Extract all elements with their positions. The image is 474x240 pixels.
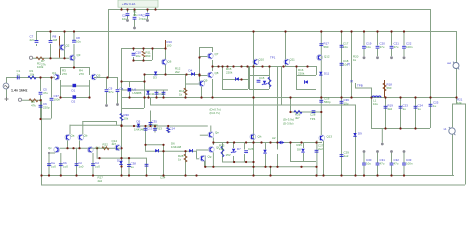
svg-text:Qc: Qc <box>48 146 52 150</box>
svg-text:C13: C13 <box>147 127 153 131</box>
svg-text:2k2: 2k2 <box>175 70 180 74</box>
svg-text:270: 270 <box>79 72 84 76</box>
svg-text:D7: D7 <box>237 147 241 151</box>
svg-text:10u: 10u <box>373 102 378 106</box>
svg-text:C12: C12 <box>158 92 164 96</box>
svg-text:TP1: TP1 <box>270 56 276 60</box>
svg-text:LM385: LM385 <box>133 91 142 95</box>
svg-text:4k7: 4k7 <box>295 116 300 120</box>
svg-text:Qb: Qb <box>84 134 88 138</box>
svg-text:TP4: TP4 <box>310 117 316 121</box>
svg-text:Q11: Q11 <box>290 58 296 62</box>
svg-text:1u: 1u <box>403 107 407 111</box>
svg-text:D10: D10 <box>117 159 123 163</box>
svg-text:220p: 220p <box>43 106 50 110</box>
svg-text:560: 560 <box>387 86 392 90</box>
svg-text:2k2: 2k2 <box>98 179 103 183</box>
svg-text:Q2: Q2 <box>66 44 70 48</box>
svg-text:D5: D5 <box>137 120 141 124</box>
svg-text:10k: 10k <box>457 101 462 105</box>
svg-text:220k: 220k <box>298 72 305 76</box>
svg-text:22n: 22n <box>30 38 35 42</box>
svg-text:100: 100 <box>167 44 172 48</box>
svg-text:1u: 1u <box>433 104 437 108</box>
svg-text:C34: C34 <box>160 176 166 180</box>
svg-text:Q10: Q10 <box>259 58 265 62</box>
svg-text:10u: 10u <box>344 102 349 106</box>
svg-text:C14: C14 <box>170 127 176 131</box>
svg-text:47u: 47u <box>394 45 399 49</box>
svg-text:15V: 15V <box>226 153 231 157</box>
svg-text:x1: x1 <box>444 127 447 131</box>
svg-text:1u: 1u <box>17 73 21 77</box>
svg-text:Ca: Ca <box>120 87 124 91</box>
svg-text:2u2: 2u2 <box>344 154 349 158</box>
svg-text:560: 560 <box>324 45 329 49</box>
svg-text:C11: C11 <box>150 92 155 96</box>
svg-text:47u: 47u <box>394 162 399 166</box>
svg-text:10u: 10u <box>343 45 348 49</box>
svg-text:D11: D11 <box>324 72 329 76</box>
svg-text:1N4148: 1N4148 <box>171 145 182 149</box>
svg-text:[7]: [7] <box>347 62 350 66</box>
svg-text:47u: 47u <box>380 45 385 49</box>
svg-text:Q4: Q4 <box>52 71 56 75</box>
svg-text:47k: 47k <box>31 104 36 108</box>
svg-text:100k: 100k <box>37 65 44 69</box>
svg-text:C15: C15 <box>259 76 265 80</box>
svg-text:10u: 10u <box>366 162 371 166</box>
svg-text:1u0: 1u0 <box>95 165 100 169</box>
svg-text:D1: D1 <box>72 89 76 93</box>
svg-text:1k8: 1k8 <box>53 38 58 42</box>
svg-text:10k: 10k <box>124 117 129 121</box>
svg-text:(D-3.9v): (D-3.9v) <box>283 122 293 126</box>
svg-text:47u: 47u <box>380 162 385 166</box>
svg-text:560p: 560p <box>324 100 331 104</box>
svg-text:2k2: 2k2 <box>388 107 393 111</box>
svg-text:A2: A2 <box>272 136 276 140</box>
svg-text:Q8: Q8 <box>215 71 219 75</box>
svg-text:1u0: 1u0 <box>51 165 56 169</box>
svg-text:D4: D4 <box>189 69 193 73</box>
svg-text:Qd: Qd <box>96 146 100 150</box>
svg-text:Qf: Qf <box>216 146 219 150</box>
svg-text:560: 560 <box>146 54 151 58</box>
svg-text:10k: 10k <box>30 73 35 77</box>
svg-text:220k: 220k <box>226 71 233 75</box>
svg-text:10u: 10u <box>136 54 141 58</box>
svg-text:10u: 10u <box>76 40 81 44</box>
svg-text:Q7: Q7 <box>215 52 219 56</box>
svg-text:Q5: Q5 <box>97 74 101 78</box>
svg-text:47u: 47u <box>43 91 48 95</box>
svg-text:out: out <box>447 61 451 65</box>
svg-text:+35v 0-2A: +35v 0-2A <box>122 2 135 6</box>
svg-text:Q9: Q9 <box>204 79 208 83</box>
svg-text:Qh: Qh <box>258 135 262 139</box>
svg-text:1.4v 1kHz: 1.4v 1kHz <box>11 89 28 93</box>
svg-text:Q3: Q3 <box>77 53 81 57</box>
svg-text:10u: 10u <box>366 45 371 49</box>
svg-text:D2: D2 <box>72 100 76 104</box>
svg-text:(D-0.7v): (D-0.7v) <box>210 111 220 115</box>
svg-text:Q13: Q13 <box>327 135 333 139</box>
svg-text:Qa: Qa <box>71 134 75 138</box>
svg-text:[2]: [2] <box>350 79 353 83</box>
svg-text:1u0: 1u0 <box>63 165 68 169</box>
svg-text:100n: 100n <box>152 123 159 127</box>
svg-text:4k7: 4k7 <box>112 142 117 146</box>
svg-text:1N4148: 1N4148 <box>134 128 145 132</box>
svg-text:C26: C26 <box>248 147 254 151</box>
svg-text:100n: 100n <box>54 98 61 102</box>
svg-text:R13: R13 <box>157 127 163 131</box>
svg-text:10u: 10u <box>142 17 147 21</box>
svg-text:1u: 1u <box>131 165 135 169</box>
svg-text:R25: R25 <box>297 143 303 147</box>
svg-text:Qg: Qg <box>208 155 212 159</box>
svg-text:D3: D3 <box>153 76 157 80</box>
svg-text:100n: 100n <box>406 45 413 49</box>
svg-text:47u: 47u <box>109 90 114 94</box>
svg-text:35v: 35v <box>133 13 138 17</box>
svg-text:2u2: 2u2 <box>318 147 323 151</box>
svg-text:10u: 10u <box>122 17 127 21</box>
svg-text:TPB: TPB <box>357 84 363 88</box>
svg-text:100n: 100n <box>406 162 413 166</box>
svg-text:Q12: Q12 <box>324 55 330 59</box>
svg-text:1u: 1u <box>418 107 422 111</box>
svg-text:15k: 15k <box>219 147 224 151</box>
svg-text:1u0: 1u0 <box>79 165 84 169</box>
svg-text:D8: D8 <box>297 148 301 152</box>
svg-text:Qe: Qe <box>215 131 219 135</box>
svg-text:D9: D9 <box>358 132 362 136</box>
svg-text:270: 270 <box>62 72 67 76</box>
svg-text:C28: C28 <box>310 113 316 117</box>
svg-text:Q6: Q6 <box>168 60 172 64</box>
